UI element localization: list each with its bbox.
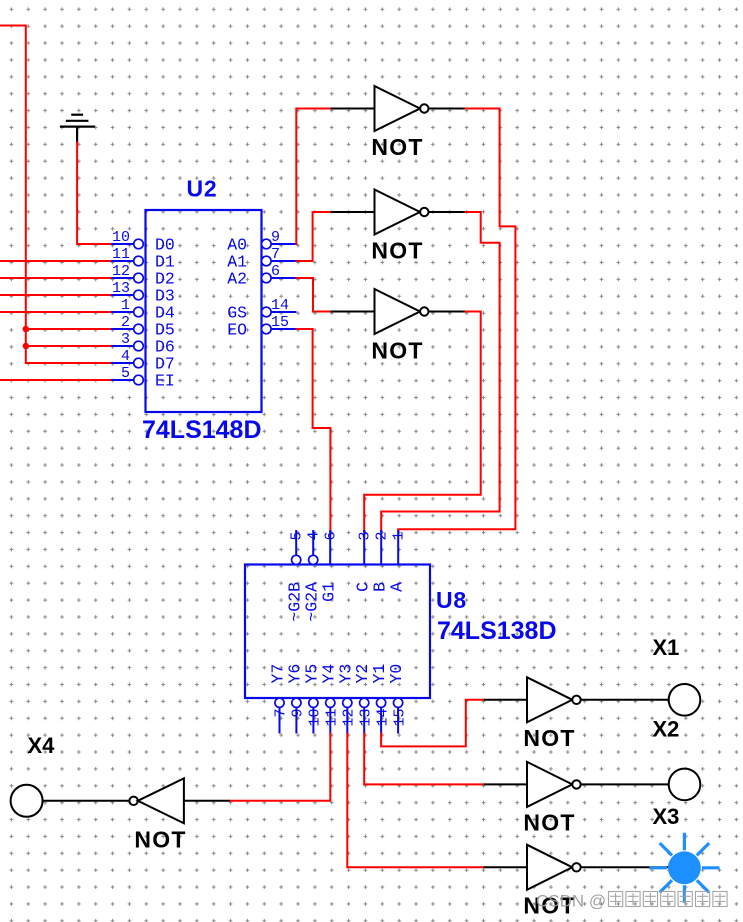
svg-text:3: 3 (121, 331, 130, 348)
svg-text:10: 10 (112, 229, 130, 246)
U8 pin 10 (Y5) bottom (302, 664, 323, 734)
svg-text:6: 6 (271, 263, 280, 280)
U8 pin 15 (Y0) bottom (387, 664, 408, 734)
U2 pin 7 (A1) right (227, 246, 296, 272)
svg-text:9: 9 (271, 229, 280, 246)
svg-text:EO: EO (227, 321, 247, 340)
U2 pin 15 (EO) right (227, 314, 296, 340)
wire: input to D3 (0, 294, 111, 296)
svg-text:U2: U2 (187, 176, 218, 202)
svg-text:NOT: NOT (371, 238, 423, 264)
svg-text:11: 11 (112, 246, 130, 263)
wire: top-left bus feeding D7 (0, 26, 111, 364)
svg-text:4: 4 (306, 531, 323, 540)
U8 pin 13 (Y2) bottom (353, 664, 374, 734)
svg-text:U8: U8 (436, 587, 467, 613)
U2 pin 9 (A0) right (227, 229, 296, 255)
svg-text:X1: X1 (653, 635, 680, 660)
wire: NOT1 output to U8 pin A (398, 109, 515, 532)
svg-text:15: 15 (391, 709, 408, 727)
U8 pin 14 (Y1) bottom (370, 664, 391, 734)
wire: Y4 to X4 NOT input (230, 734, 330, 801)
svg-text:12: 12 (112, 263, 130, 280)
U2 pin 1 (D4) left (111, 297, 175, 323)
svg-text:NOT: NOT (523, 725, 575, 751)
wire: input to D2 (0, 277, 111, 279)
U8 pin 4 (~G2A) top (303, 530, 323, 622)
svg-text:14: 14 (271, 297, 289, 314)
U2 pin 2 (D5) left (111, 314, 175, 340)
svg-text:A2: A2 (227, 270, 247, 289)
U8 pin 2 (B) top (371, 530, 391, 592)
wire: branch to D5 pin 2 (26, 328, 111, 330)
svg-text:74LS138D: 74LS138D (437, 617, 557, 645)
U8 pin 12 (Y3) bottom (336, 664, 357, 734)
U2 pin 4 (D7) left (111, 348, 175, 374)
U8 pin 3 (C) top (354, 530, 374, 592)
svg-text:NOT: NOT (134, 827, 186, 853)
wire: Y2 to middle NOT input (364, 734, 484, 785)
wire: EO to U8 G1 (297, 329, 331, 531)
wire: NOT2 output to U8 pin B (381, 212, 499, 531)
U8 pin 7 (Y7) bottom (269, 664, 290, 734)
svg-text:10: 10 (307, 709, 324, 727)
svg-text:A: A (388, 582, 407, 592)
svg-text:NOT: NOT (371, 134, 423, 160)
indicator probe X4 (off) (11, 785, 43, 817)
indicator probe X1 (off) (669, 684, 701, 716)
wire: A2 to NOT3 input (297, 278, 331, 312)
svg-text:CSDN @: CSDN @ (536, 892, 606, 911)
svg-text:7: 7 (271, 246, 280, 263)
svg-text:3: 3 (357, 531, 374, 540)
U2 pin 6 (A2) right (227, 263, 296, 289)
indicator probe X2 (off) (669, 769, 701, 801)
svg-text:NOT: NOT (523, 810, 575, 836)
U8 pin 5 (~G2B) top (286, 530, 306, 622)
svg-text:Y0: Y0 (387, 664, 406, 684)
svg-text:7: 7 (273, 709, 290, 718)
wire: NOT3 output to U8 pin C (364, 312, 481, 532)
op IC U2 74LS148D body (146, 210, 262, 412)
NOT gate U? (A1 inverter) (331, 190, 466, 235)
U2 pin 10 (D0) left (111, 229, 175, 255)
svg-text:13: 13 (112, 280, 130, 297)
wire: Y3 to bottom NOT input (347, 734, 483, 868)
wire: input to D1 (0, 260, 111, 262)
svg-text:2: 2 (121, 314, 130, 331)
NOT gate (X4 inverter, mirrored) (43, 778, 230, 823)
U2 pin 14 (GS) right (227, 297, 296, 323)
wire: branch to D6 pin 3 (26, 345, 111, 347)
U8 pin 6 (G1) top (320, 530, 340, 602)
wire: ground to D0 pin 10 (77, 143, 111, 245)
U2 pin 11 (D1) left (111, 246, 175, 272)
svg-text:X4: X4 (28, 733, 56, 758)
svg-text:NOT: NOT (371, 338, 423, 364)
svg-text:1: 1 (121, 297, 130, 314)
U2 pin 3 (D6) left (111, 331, 175, 357)
junction dot on D6 branch (23, 343, 29, 349)
U8 pin 1 (A) top (388, 530, 408, 592)
svg-text:1: 1 (391, 531, 408, 540)
svg-text:11: 11 (324, 709, 341, 727)
watermark (decorative) (536, 892, 727, 911)
U2 pin 13 (D3) left (111, 280, 175, 306)
svg-text:2: 2 (374, 531, 391, 540)
NOT gate U? (A2 inverter) (331, 289, 466, 334)
NOT gate (Y1 inverter) (484, 677, 669, 722)
IC U8 74LS138D body (245, 565, 430, 699)
junction dot on D5 branch (23, 326, 29, 332)
wire: A1 to NOT2 input (297, 212, 331, 261)
wire: Y1 to top-right NOT input (381, 700, 484, 747)
wire: input to D4 (0, 311, 111, 313)
ground symbol (60, 115, 95, 143)
svg-text:EI: EI (155, 372, 175, 391)
U2 pin 5 (EI) left (111, 365, 175, 391)
svg-text:G1: G1 (320, 582, 339, 602)
svg-text:6: 6 (323, 531, 340, 540)
NOT gate U? (A0 inverter) (331, 86, 466, 131)
svg-text:74LS148D: 74LS148D (142, 416, 262, 444)
U8 pin 11 (Y4) bottom (319, 664, 340, 734)
svg-text:12: 12 (341, 709, 358, 727)
indicator probe X3 (lit) (649, 833, 719, 903)
svg-text:X3: X3 (653, 804, 680, 829)
wire: input to EI (0, 379, 111, 381)
svg-text:15: 15 (271, 314, 289, 331)
svg-text:14: 14 (374, 709, 391, 727)
svg-text:X2: X2 (653, 717, 680, 742)
U8 pin 9 (Y6) bottom (285, 664, 306, 734)
svg-text:5: 5 (289, 531, 306, 540)
svg-text:5: 5 (121, 365, 130, 382)
NOT gate (Y3 inverter) (484, 845, 669, 890)
U2 pin 12 (D2) left (111, 263, 175, 289)
svg-text:13: 13 (357, 709, 374, 727)
wire: A0 to NOT1 input (296, 109, 330, 245)
svg-text:4: 4 (121, 348, 130, 365)
NOT gate (Y2 inverter) (484, 762, 669, 807)
svg-text:9: 9 (290, 709, 307, 718)
